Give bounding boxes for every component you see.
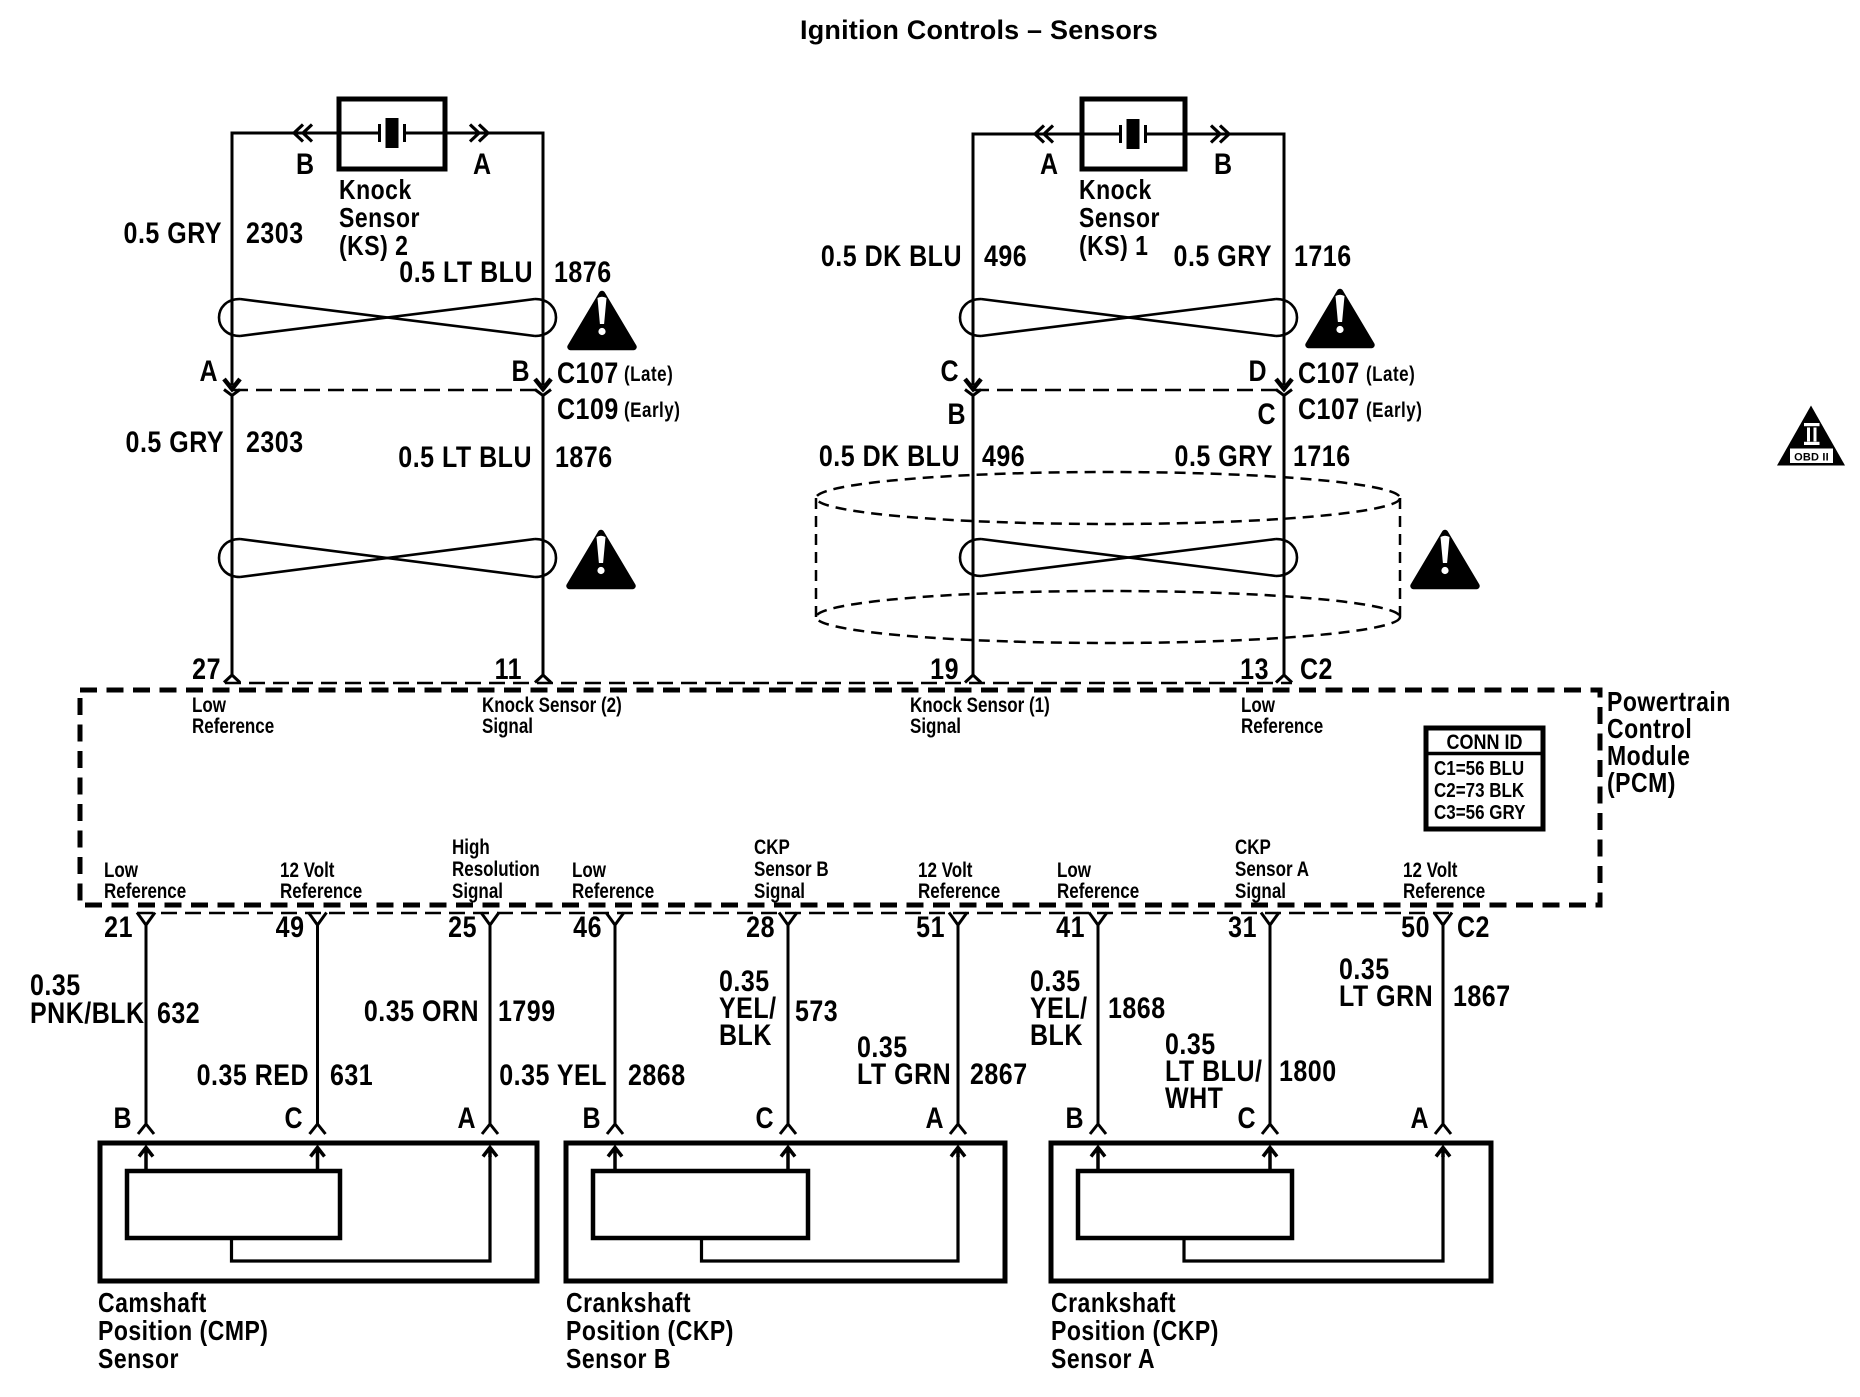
svg-text:1716: 1716 — [1294, 239, 1352, 273]
svg-text:Signal: Signal — [1235, 880, 1286, 903]
PCM pin 46 fork — [606, 913, 624, 926]
svg-text:25: 25 — [448, 910, 477, 944]
wire 1716 vertical upper — [1283, 133, 1286, 386]
svg-text:(Early): (Early) — [624, 399, 680, 422]
svg-text:(KS) 1: (KS) 1 — [1079, 231, 1148, 261]
knock sensor KS2 box — [339, 99, 445, 169]
warning triangle KS1 upper — [1309, 292, 1372, 345]
svg-text:Signal: Signal — [910, 715, 961, 738]
OBD II symbol — [1777, 406, 1845, 466]
svg-text:(Late): (Late) — [624, 363, 673, 386]
sensor terminal arrow pin B — [1091, 1148, 1105, 1172]
arrow into connector at B — [535, 379, 551, 389]
svg-text:Sensor A: Sensor A — [1235, 858, 1309, 881]
svg-text:0.35 ORN: 0.35 ORN — [364, 994, 479, 1028]
PCM pin 28 fork — [779, 913, 797, 926]
svg-text:C: C — [1257, 397, 1276, 431]
svg-text:C: C — [1237, 1101, 1256, 1135]
svg-text:CKP: CKP — [754, 836, 790, 859]
svg-text:Sensor B: Sensor B — [566, 1344, 671, 1374]
KS2 right double chevron — [470, 125, 479, 142]
svg-text:51: 51 — [916, 910, 945, 944]
sensor terminal arrow pin C — [311, 1148, 325, 1172]
wire 496 vertical upper — [972, 133, 975, 386]
svg-text:B: B — [947, 397, 966, 431]
svg-text:28: 28 — [746, 910, 775, 944]
warning triangle KS2 upper — [571, 294, 634, 347]
shield cylinder right side — [1399, 498, 1402, 617]
knock sensor KS1 crystal element — [1119, 125, 1122, 143]
chevron below connector at D — [1276, 390, 1292, 396]
svg-text:Reference: Reference — [192, 715, 274, 738]
svg-text:Reference: Reference — [1241, 715, 1323, 738]
svg-text:1799: 1799 — [498, 994, 556, 1028]
wire 1716 vertical lower — [1283, 396, 1286, 675]
sensor connector fork pin 50 — [1435, 1124, 1451, 1134]
svg-text:0.35 YEL: 0.35 YEL — [499, 1058, 607, 1092]
svg-text:A: A — [1410, 1101, 1429, 1135]
svg-text:631: 631 — [330, 1058, 373, 1092]
connector line C107/C109 left — [232, 389, 543, 392]
svg-text:C: C — [284, 1101, 303, 1135]
sensor internal loop wire — [702, 1156, 959, 1261]
svg-text:Low: Low — [192, 694, 226, 717]
wire from pin 25 — [489, 923, 492, 1124]
svg-text:A: A — [473, 147, 492, 181]
svg-text:0.5 LT BLU: 0.5 LT BLU — [398, 440, 532, 474]
shield cylinder bottom ellipse — [816, 591, 1400, 643]
KS1 right double chevron — [1211, 126, 1220, 143]
svg-text:Low: Low — [1057, 859, 1091, 882]
svg-text:Position (CKP): Position (CKP) — [1051, 1316, 1219, 1346]
svg-text:Low: Low — [104, 859, 138, 882]
sensor connector fork pin 28 — [780, 1124, 796, 1134]
svg-text:1876: 1876 — [554, 255, 612, 289]
svg-text:0.5 GRY: 0.5 GRY — [1175, 439, 1273, 473]
sensor connector fork pin 46 — [607, 1124, 623, 1134]
wire from pin 21 — [145, 923, 148, 1124]
svg-text:27: 27 — [192, 652, 221, 686]
svg-text:C3=56 GRY: C3=56 GRY — [1434, 801, 1526, 824]
twisted pair KS2 upper — [240, 299, 535, 336]
PCM pin 19 fork — [965, 675, 981, 683]
svg-text:2303: 2303 — [246, 425, 304, 459]
svg-text:Knock Sensor (2): Knock Sensor (2) — [482, 694, 622, 717]
svg-text:Reference: Reference — [280, 880, 362, 903]
svg-text:12 Volt: 12 Volt — [280, 859, 335, 882]
svg-text:21: 21 — [104, 910, 133, 944]
svg-text:Low: Low — [572, 859, 606, 882]
svg-text:Sensor: Sensor — [98, 1344, 179, 1374]
sensor terminal arrow pin B — [139, 1148, 153, 1172]
svg-text:0.5 GRY: 0.5 GRY — [124, 216, 222, 250]
svg-text:41: 41 — [1056, 910, 1085, 944]
svg-text:(Late): (Late) — [1366, 363, 1415, 386]
svg-text:Signal: Signal — [482, 715, 533, 738]
wire from pin 31 — [1269, 923, 1272, 1124]
svg-text:0.5 DK BLU: 0.5 DK BLU — [821, 239, 962, 273]
svg-text:B: B — [113, 1101, 132, 1135]
CMP sensor element box — [127, 1171, 340, 1238]
svg-text:Sensor: Sensor — [339, 203, 420, 233]
twisted pair KS2 lower — [240, 539, 535, 577]
svg-text:Ignition Controls – Sensors: Ignition Controls – Sensors — [800, 15, 1158, 45]
sensor internal loop wire — [1184, 1156, 1443, 1261]
wire 1876 right vertical upper — [542, 132, 545, 386]
sensor terminal arrow pin A — [483, 1148, 497, 1158]
svg-text:2303: 2303 — [246, 216, 304, 250]
KS2 left double chevron — [294, 125, 303, 142]
svg-text:Sensor B: Sensor B — [754, 858, 829, 881]
wire KS2 pin A horizontal — [404, 132, 543, 135]
chevron below connector at A — [224, 390, 240, 396]
PCM pin 49 fork — [309, 913, 327, 926]
svg-text:B: B — [1214, 147, 1233, 181]
sensor connector fork pin 51 — [950, 1124, 966, 1134]
knock sensor KS2 crystal element — [378, 124, 381, 142]
PCM pin 41 fork — [1089, 913, 1107, 926]
sensor connector fork pin 21 — [138, 1124, 154, 1134]
svg-text:50: 50 — [1401, 910, 1430, 944]
svg-text:Position (CMP): Position (CMP) — [98, 1316, 268, 1346]
wire 2303 left vertical upper — [231, 132, 234, 386]
svg-text:C107: C107 — [1298, 392, 1360, 426]
svg-text:B: B — [1065, 1101, 1084, 1135]
PCM connector line top — [225, 682, 1292, 685]
arrow into connector at A — [224, 379, 240, 389]
sensor terminal arrow pin C — [781, 1148, 795, 1172]
arrow into connector at D — [1276, 379, 1292, 389]
svg-text:B: B — [511, 354, 530, 388]
svg-text:1876: 1876 — [555, 440, 613, 474]
wire from pin 50 — [1442, 923, 1445, 1124]
svg-text:13: 13 — [1240, 652, 1269, 686]
knock sensor KS1 box — [1082, 99, 1185, 169]
shield cylinder left side — [815, 498, 818, 617]
svg-text:Control: Control — [1607, 714, 1692, 744]
svg-text:0.35 RED: 0.35 RED — [197, 1058, 309, 1092]
PCM pin 27 fork — [224, 675, 240, 683]
svg-text:CKP: CKP — [1235, 836, 1271, 859]
warning triangle KS2 lower — [570, 533, 633, 586]
svg-text:Powertrain: Powertrain — [1607, 687, 1731, 717]
PCM pin 13 fork — [1276, 675, 1292, 683]
sensor internal loop wire — [232, 1156, 491, 1261]
svg-text:Sensor: Sensor — [1079, 203, 1160, 233]
svg-text:C: C — [940, 354, 959, 388]
svg-text:Knock: Knock — [1079, 175, 1152, 205]
svg-text:(KS) 2: (KS) 2 — [339, 231, 408, 261]
svg-text:OBD II: OBD II — [1794, 452, 1829, 464]
wire KS1 pin B horizontal — [1146, 133, 1285, 136]
svg-text:C107: C107 — [1298, 356, 1360, 390]
svg-text:Knock Sensor (1): Knock Sensor (1) — [910, 694, 1050, 717]
PCM connector line bottom — [137, 912, 1452, 915]
sensor terminal arrow pin A — [1436, 1148, 1450, 1158]
svg-text:C2: C2 — [1300, 652, 1333, 686]
wire from pin 28 — [787, 923, 790, 1124]
svg-text:0.5 DK BLU: 0.5 DK BLU — [819, 439, 960, 473]
CKP-A sensor element box — [1078, 1171, 1292, 1238]
CMP sensor outer box — [100, 1143, 537, 1281]
svg-text:WHT: WHT — [1165, 1081, 1223, 1115]
twisted pair KS1 upper — [981, 299, 1276, 336]
PCM dashed box — [80, 690, 1600, 905]
svg-text:1867: 1867 — [1453, 979, 1511, 1013]
svg-text:C1=56 BLU: C1=56 BLU — [1434, 757, 1524, 780]
svg-text:PNK/BLK: PNK/BLK — [30, 996, 145, 1030]
sensor connector fork pin 31 — [1262, 1124, 1278, 1134]
svg-text:Reference: Reference — [918, 880, 1000, 903]
warning triangle KS1 lower — [1414, 533, 1477, 586]
svg-text:Camshaft: Camshaft — [98, 1288, 207, 1318]
PCM pin 25 fork — [481, 913, 499, 926]
sensor connector fork pin 49 — [310, 1124, 326, 1134]
svg-text:31: 31 — [1228, 910, 1257, 944]
sensor terminal arrow pin C — [1263, 1148, 1277, 1172]
CKP-B sensor outer box — [566, 1143, 1005, 1281]
svg-text:Resolution: Resolution — [452, 858, 540, 881]
wire KS2 pin B horizontal — [232, 132, 380, 135]
arrow into connector at C — [965, 379, 981, 389]
svg-text:BLK: BLK — [719, 1018, 772, 1052]
sensor terminal arrow pin A — [951, 1148, 965, 1158]
svg-text:496: 496 — [984, 239, 1027, 273]
svg-text:12 Volt: 12 Volt — [918, 859, 973, 882]
twisted pair KS1 lower — [981, 539, 1276, 576]
svg-text:A: A — [457, 1101, 476, 1135]
svg-text:632: 632 — [157, 996, 200, 1030]
svg-text:Crankshaft: Crankshaft — [566, 1288, 691, 1318]
svg-text:496: 496 — [982, 439, 1025, 473]
svg-text:LT GRN: LT GRN — [857, 1057, 951, 1091]
svg-text:46: 46 — [573, 910, 602, 944]
svg-text:LT GRN: LT GRN — [1339, 979, 1433, 1013]
connector line C107 right — [973, 389, 1284, 392]
svg-text:Signal: Signal — [754, 880, 805, 903]
chevron below connector at C — [965, 390, 981, 396]
sensor connector fork pin 25 — [482, 1124, 498, 1134]
svg-text:Module: Module — [1607, 741, 1690, 771]
svg-text:Position (CKP): Position (CKP) — [566, 1316, 734, 1346]
KS1 left double chevron — [1035, 126, 1044, 143]
PCM pin 50 fork — [1434, 913, 1452, 926]
svg-text:Signal: Signal — [452, 880, 503, 903]
wire 2303 left vertical lower — [231, 396, 234, 675]
svg-text:(Early): (Early) — [1366, 399, 1422, 422]
svg-text:1800: 1800 — [1279, 1054, 1337, 1088]
svg-text:B: B — [296, 147, 315, 181]
svg-text:(PCM): (PCM) — [1607, 768, 1676, 798]
CKP-A sensor outer box — [1051, 1143, 1491, 1281]
svg-text:D: D — [1248, 354, 1267, 388]
sensor terminal arrow pin B — [608, 1148, 622, 1172]
svg-text:19: 19 — [930, 652, 959, 686]
svg-text:C2: C2 — [1457, 910, 1490, 944]
svg-text:C109: C109 — [557, 392, 619, 426]
svg-text:0.5 GRY: 0.5 GRY — [126, 425, 224, 459]
wire KS1 pin A horizontal — [973, 133, 1121, 136]
svg-text:C: C — [755, 1101, 774, 1135]
svg-text:1868: 1868 — [1108, 991, 1166, 1025]
svg-text:2868: 2868 — [628, 1058, 686, 1092]
CONN ID box — [1426, 728, 1543, 829]
shield cylinder top ellipse — [816, 472, 1400, 524]
sensor connector fork pin 41 — [1090, 1124, 1106, 1134]
wire from pin 41 — [1097, 923, 1100, 1124]
svg-text:49: 49 — [276, 910, 305, 944]
PCM pin 11 fork — [535, 675, 551, 683]
svg-text:0.5 GRY: 0.5 GRY — [1174, 239, 1272, 273]
svg-text:CONN ID: CONN ID — [1447, 731, 1523, 755]
PCM pin 21 fork — [137, 913, 155, 926]
svg-text:A: A — [1040, 147, 1059, 181]
svg-text:Sensor A: Sensor A — [1051, 1344, 1155, 1374]
svg-text:B: B — [582, 1101, 601, 1135]
chevron below connector at B — [535, 390, 551, 396]
wire from pin 46 — [614, 923, 617, 1124]
CKP-B sensor element box — [593, 1171, 808, 1238]
svg-text:Reference: Reference — [1403, 880, 1485, 903]
svg-text:11: 11 — [495, 652, 522, 686]
wire 1876 right vertical lower — [542, 396, 545, 675]
svg-text:573: 573 — [795, 994, 838, 1028]
PCM pin 31 fork — [1261, 913, 1279, 926]
svg-text:12 Volt: 12 Volt — [1403, 859, 1458, 882]
svg-text:Knock: Knock — [339, 175, 412, 205]
svg-text:Reference: Reference — [104, 880, 186, 903]
svg-text:C107: C107 — [557, 356, 619, 390]
svg-text:A: A — [925, 1101, 944, 1135]
wire 496 vertical lower — [972, 396, 975, 675]
svg-text:High: High — [452, 836, 490, 859]
svg-text:0.5 LT BLU: 0.5 LT BLU — [399, 255, 533, 289]
svg-text:2867: 2867 — [970, 1057, 1028, 1091]
svg-text:Crankshaft: Crankshaft — [1051, 1288, 1176, 1318]
wire from pin 51 — [957, 923, 960, 1124]
svg-text:Low: Low — [1241, 694, 1275, 717]
svg-text:Reference: Reference — [1057, 880, 1139, 903]
svg-text:A: A — [199, 354, 218, 388]
svg-text:BLK: BLK — [1030, 1018, 1083, 1052]
PCM pin 51 fork — [949, 913, 967, 926]
svg-text:C2=73 BLK: C2=73 BLK — [1434, 779, 1525, 802]
wire from pin 49 — [316, 923, 319, 1124]
svg-text:1716: 1716 — [1293, 439, 1351, 473]
svg-text:Reference: Reference — [572, 880, 654, 903]
